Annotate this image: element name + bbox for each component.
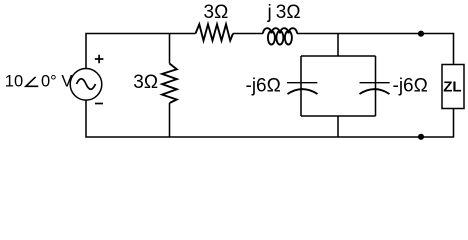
svg-text:0° V: 0° V <box>41 72 72 90</box>
svg-text:-j6Ω: -j6Ω <box>393 75 428 96</box>
svg-text:3Ω: 3Ω <box>276 2 301 23</box>
svg-text:j: j <box>267 2 272 23</box>
svg-text:-j6Ω: -j6Ω <box>246 75 281 96</box>
svg-text:ZL: ZL <box>443 78 461 95</box>
svg-text:3Ω: 3Ω <box>204 2 229 23</box>
svg-text:10: 10 <box>5 72 23 90</box>
svg-text:3Ω: 3Ω <box>133 72 158 93</box>
